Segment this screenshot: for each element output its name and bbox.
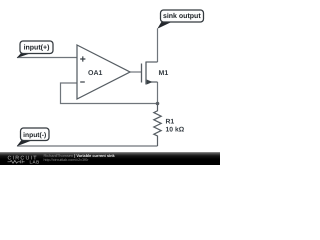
flag: input(-) (17, 140, 33, 146)
resistor R1 zigzag (154, 104, 161, 147)
svg-text:R1: R1 (166, 119, 175, 126)
wire: bottom rail from R1 to input(-) (17, 145, 158, 147)
svg-text:sink output: sink output (163, 12, 201, 20)
svg-text:http://circuitlab.com/c2v3f6r: http://circuitlab.com/c2v3f6r (44, 158, 90, 162)
svg-text:LAB: LAB (30, 160, 40, 165)
CircuitLab logo: resistor squiggle + LAB (8, 160, 25, 163)
svg-text:input(-): input(-) (23, 132, 46, 139)
transistor M1 channel bar (145, 62, 147, 85)
svg-text:OA1: OA1 (88, 70, 103, 77)
wire: feedback from source node to inverting input (61, 83, 158, 104)
flag: input(+) (17, 53, 33, 59)
wire: sink output flag down to M1 drain (157, 29, 159, 63)
op-amp U1 (OA1) triangle (77, 45, 130, 99)
wire: M1 source down to node A (157, 82, 159, 104)
wire: input(+) to op-amp noninverting input (17, 57, 77, 59)
svg-text:10 kΩ: 10 kΩ (166, 127, 185, 134)
transistor M1 source arrow (147, 80, 153, 85)
svg-text:input(+): input(+) (24, 44, 50, 52)
transistor M1 (NMOS) gate bar (141, 64, 143, 83)
flag: sink output (157, 22, 172, 29)
transistor M1 source leg (146, 81, 158, 83)
wire: op-amp output to M1 gate (130, 71, 142, 73)
svg-text:M1: M1 (159, 70, 169, 77)
node A junction dot (156, 102, 160, 106)
op-amp plus sign (80, 56, 85, 61)
op-amp minus sign (80, 81, 85, 83)
transistor M1 drain leg (146, 61, 158, 63)
